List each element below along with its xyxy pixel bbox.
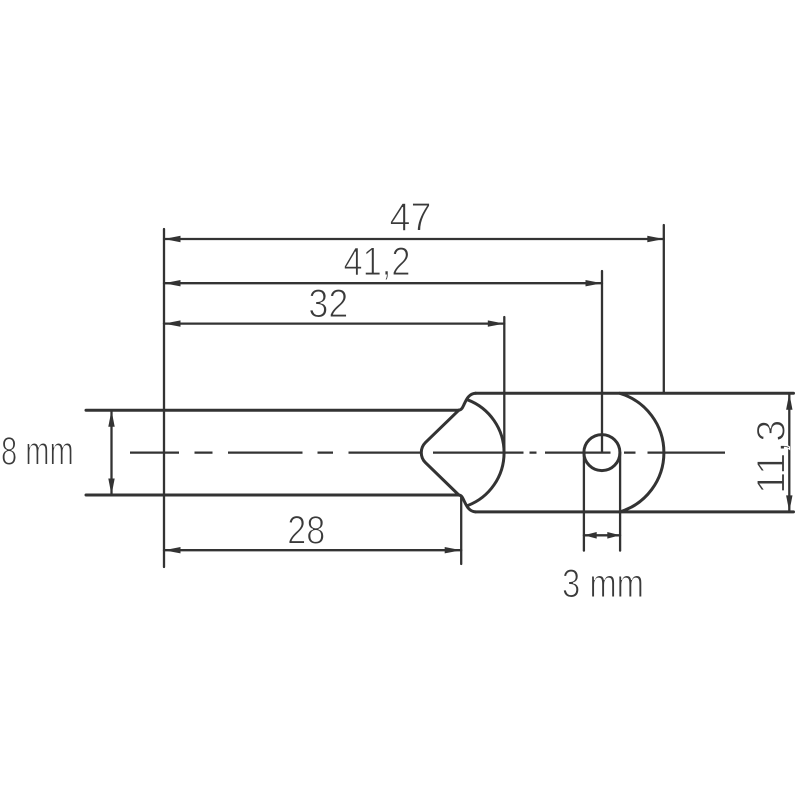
arrow 32 left — [164, 320, 181, 326]
head lower-left bump — [459, 495, 476, 512]
arrow 47 right — [647, 236, 664, 242]
arrow 41.2 left — [164, 280, 181, 286]
dimension line 8mm vertical — [110, 410, 112, 495]
dimension line 3mm — [584, 534, 620, 536]
svg-text:41,2: 41,2 — [344, 240, 411, 284]
head right arc — [620, 393, 664, 512]
dimension line 28 — [164, 549, 461, 551]
dimension line 11.3 vertical — [788, 393, 790, 512]
extension line left datum x=164 — [163, 229, 165, 567]
head bottom line + 11.3 bottom extension line — [476, 510, 794, 513]
dimension line 41.2 — [164, 282, 602, 284]
dimension line 32 — [164, 322, 504, 324]
dimension line 47 — [164, 238, 664, 240]
hole circle — [584, 435, 620, 471]
head upper-left bump — [459, 393, 476, 410]
svg-text:47: 47 — [390, 195, 432, 239]
shaft top line — [86, 409, 459, 412]
head top line + 11.3 top extension line — [476, 392, 794, 395]
arrow 32 right — [488, 320, 505, 326]
extension line x=664 (47) — [663, 225, 665, 393]
arrow 47 left — [164, 236, 181, 242]
arrow 41.2 right — [586, 280, 603, 286]
arrow 11.3 up — [786, 393, 792, 410]
arrow 3mm right — [607, 532, 620, 539]
extension line 28 right — [460, 496, 462, 564]
centerline dash-dot — [130, 451, 725, 453]
extension line x=602 (41.2, to hole centre) — [601, 271, 603, 452]
extension line 3mm right — [619, 453, 621, 551]
shaft bottom line — [86, 494, 459, 497]
svg-text:28: 28 — [287, 508, 325, 552]
arrow 8mm down — [108, 479, 114, 496]
arrow 11.3 down — [786, 495, 792, 512]
arrow 3mm left — [584, 532, 597, 539]
svg-text:3 mm: 3 mm — [562, 562, 644, 606]
arrow 28 left — [164, 547, 181, 553]
svg-text:32: 32 — [308, 282, 348, 326]
tip outline (point with rounded nose) — [421, 410, 459, 495]
arrow 28 right — [445, 547, 462, 553]
extension line 3mm left — [583, 453, 585, 551]
cone silhouette arc — [468, 400, 504, 506]
extension line x=504 (32) — [503, 317, 505, 451]
svg-text:8 mm: 8 mm — [1, 429, 74, 473]
arrow 8mm up — [108, 410, 114, 427]
svg-text:11,3: 11,3 — [750, 420, 794, 494]
